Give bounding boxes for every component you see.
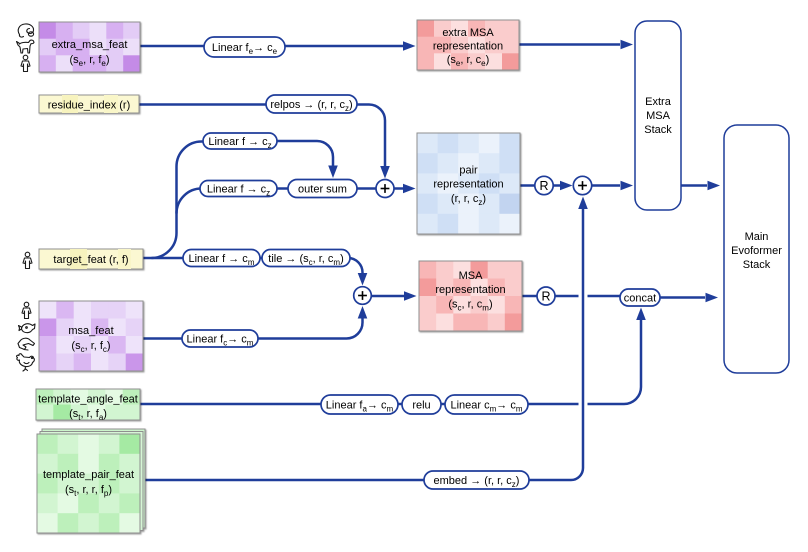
icon human (msa feat) — [22, 302, 31, 318]
msa_feat box — [39, 301, 144, 372]
svg-text:Linear f → cm: Linear f → cm — [189, 253, 255, 267]
wire plus to pair representation — [394, 187, 404, 190]
icon snake (extra msa) — [18, 24, 33, 37]
recycle R msa — [537, 287, 555, 305]
target_feat box — [39, 249, 143, 269]
svg-text:tile → (sc, r, cm): tile → (sc, r, cm) — [268, 253, 343, 267]
svg-text:embed → (r, r, cz): embed → (r, r, cz) — [434, 475, 520, 489]
Extra MSA Stack box — [635, 21, 681, 210]
wire Linear f-cz2 to outer sum — [277, 187, 289, 190]
pill Linear fa to cm — [321, 395, 398, 414]
svg-text:Stack: Stack — [743, 259, 771, 271]
svg-text:representation: representation — [433, 179, 503, 191]
pill Linear fc to cm — [182, 330, 258, 348]
svg-text:Linear fc→ cm: Linear fc→ cm — [187, 334, 254, 348]
icon rooster (msa feat) — [17, 354, 35, 371]
arrowhead down into pair plus — [380, 166, 390, 179]
wire Linear f-cm to tile — [259, 257, 264, 260]
svg-text:Stack: Stack — [644, 124, 672, 136]
wire target_feat branch up to Linear f-cz top — [152, 142, 205, 259]
wire Linear fa-cm to relu — [397, 403, 403, 406]
svg-text:pair: pair — [459, 165, 478, 177]
svg-text:Extra: Extra — [645, 96, 672, 108]
wire residue_index to relpos — [139, 103, 267, 106]
wire extra MSA representation to Extra MSA Stack — [519, 43, 620, 46]
svg-text:residue_index (r): residue_index (r) — [48, 100, 131, 112]
svg-text:MSA: MSA — [646, 110, 671, 122]
svg-text:template_pair_feat: template_pair_feat — [43, 469, 134, 481]
svg-text:outer sum: outer sum — [298, 184, 347, 196]
pill outer sum — [288, 180, 357, 198]
plus after R — [573, 176, 591, 194]
svg-text:relpos → (r, r, cz): relpos → (r, r, cz) — [270, 99, 352, 113]
wire relu to Linear cm-cm — [440, 403, 446, 406]
icon fish (msa feat) — [19, 324, 36, 333]
pill concat — [620, 289, 660, 306]
arrowhead into Extra MSA Stack top — [621, 40, 634, 50]
svg-text:Linear fe→ ce: Linear fe→ ce — [212, 42, 278, 56]
wire R2 to concat with hop gap — [555, 295, 621, 298]
wire MSA representation to R2 — [522, 295, 537, 298]
grid pair representation — [417, 133, 521, 235]
plus junction pair — [376, 180, 394, 198]
svg-text:R: R — [541, 290, 550, 304]
wire extra_msa_feat to Linear — [140, 45, 205, 48]
arrowhead up into msa plus — [358, 306, 368, 319]
arrowhead into Extra MSA Stack bottom — [621, 181, 634, 191]
svg-text:R: R — [539, 179, 548, 193]
extra MSA representation box — [417, 20, 520, 71]
wire outer sum to plus — [356, 187, 376, 190]
wire pair representation to R — [520, 184, 535, 187]
grid template_angle_feat — [36, 389, 141, 421]
wire tile to msa plus — [348, 258, 363, 273]
template_angle_feat box — [36, 389, 141, 422]
svg-text:concat: concat — [624, 293, 656, 305]
svg-text:Evoformer: Evoformer — [731, 245, 782, 257]
icon rabbit (msa feat) — [18, 338, 35, 350]
arrowhead down into msa plus — [358, 273, 368, 286]
svg-text:extra MSA: extra MSA — [442, 27, 494, 39]
arrowhead into Main Evoformer top — [708, 181, 721, 191]
pill embed — [424, 471, 529, 489]
svg-text:MSA: MSA — [459, 270, 484, 282]
svg-text:template_angle_feat: template_angle_feat — [38, 394, 138, 406]
icon human (extra msa) — [21, 55, 30, 71]
wire concat to Main Evoformer — [660, 296, 705, 299]
MSA representation box — [419, 261, 523, 332]
svg-text:Linear fa→ cm: Linear fa→ cm — [326, 400, 394, 414]
svg-text:msa_feat: msa_feat — [68, 325, 113, 337]
svg-text:Linear cm→ cm: Linear cm→ cm — [450, 400, 522, 414]
pill Linear f to cm — [183, 250, 260, 268]
pair representation box — [417, 133, 521, 235]
arrowhead into plus after R — [560, 181, 573, 191]
wire template_angle_feat to Linear fa-cm — [140, 403, 322, 406]
wire R to plus — [553, 184, 560, 187]
pill Linear f to cz top — [203, 133, 277, 150]
arrowhead into extra MSA representation — [403, 41, 416, 51]
wire target_feat to Linear f-cm — [143, 257, 184, 260]
svg-text:representation: representation — [435, 284, 505, 296]
recycle R pair — [535, 176, 553, 194]
grid template_pair_feat — [37, 434, 141, 534]
svg-text:representation: representation — [433, 41, 503, 53]
svg-text:Main: Main — [745, 231, 769, 243]
extra_msa_feat box — [39, 22, 141, 73]
Main Evoformer Stack box — [724, 125, 789, 373]
pill Linear f to cz second — [200, 181, 277, 198]
plus junction msa — [354, 287, 372, 305]
wire template_pair_feat to embed — [145, 479, 425, 482]
grid MSA representation — [419, 261, 523, 332]
wire embed up to plus after R — [528, 209, 583, 481]
wire msa plus to MSA representation — [372, 295, 405, 298]
svg-text:Linear f → cz: Linear f → cz — [208, 136, 271, 150]
svg-text:Linear f → cz: Linear f → cz — [207, 184, 270, 198]
wire plus to Extra MSA Stack bottom — [592, 184, 620, 187]
arrowhead down into outer sum — [328, 166, 338, 179]
pill Linear fe to ce — [204, 37, 285, 57]
icon human (target feat) — [23, 252, 32, 268]
icon dog (extra msa) — [17, 40, 35, 53]
arrowhead up into concat — [636, 308, 646, 321]
template_pair_feat stacked box — [37, 429, 145, 534]
grid extra_msa_feat — [39, 22, 141, 73]
pill relpos — [266, 95, 357, 113]
arrowhead up into plus after R — [578, 197, 588, 210]
svg-text:relu: relu — [412, 400, 430, 412]
wire Linear fc-cm up to msa plus — [258, 319, 363, 339]
wire Extra MSA Stack to Main Evoformer — [681, 184, 707, 187]
svg-text:extra_msa_feat: extra_msa_feat — [52, 39, 128, 51]
wire Linear to extra MSA representation — [284, 45, 404, 48]
wire relpos to plus junction — [356, 105, 385, 167]
arrowhead into Main Evoformer bottom — [706, 293, 719, 303]
grid msa_feat — [39, 301, 144, 372]
pill relu — [402, 395, 441, 414]
wire msa_feat to Linear fc-cm — [143, 337, 183, 340]
wire Linear f-cz to outer sum — [277, 141, 333, 166]
wire Linear cm-cm up to concat — [527, 320, 641, 404]
arrowhead into MSA representation — [404, 291, 417, 301]
wire branch to Linear f-cz second — [177, 189, 202, 214]
pill tile — [262, 250, 350, 268]
svg-text:target_feat (r, f): target_feat (r, f) — [53, 254, 128, 266]
residue_index box — [39, 95, 139, 113]
pill Linear cm to cm — [445, 395, 528, 414]
arrowhead into pair representation — [403, 184, 416, 194]
grid extra MSA representation — [417, 20, 520, 71]
